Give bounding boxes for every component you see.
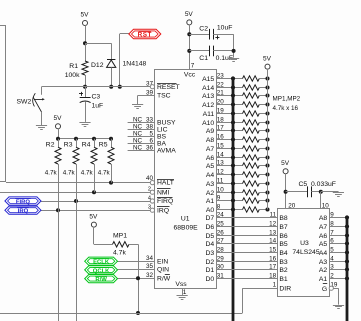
node junction (5V bus): [266, 86, 270, 90]
svg-text:D3: D3: [205, 250, 214, 257]
node junction (address bus): [231, 111, 235, 115]
node junction: [92, 137, 96, 141]
pin 17 A9: [206, 124, 243, 135]
svg-text:D0: D0: [205, 276, 214, 283]
svg-text:FIRQ: FIRQ: [157, 198, 173, 205]
node junction: [83, 85, 87, 89]
node junction (right bus): [345, 224, 349, 228]
capacitor C1 0.1uF: [189, 46, 233, 62]
pin 8 A0: [206, 203, 243, 214]
svg-text:RESET: RESET: [157, 84, 180, 91]
U3 pin 7 A6: [319, 229, 347, 240]
svg-text:5V: 5V: [185, 11, 194, 18]
svg-text:A11: A11: [203, 111, 215, 118]
switch SW2: [17, 87, 45, 126]
node junction (5V bus): [266, 164, 270, 168]
svg-text:QIN: QIN: [157, 267, 169, 274]
svg-text:MP1: MP1: [113, 232, 127, 239]
node junction: [92, 190, 96, 194]
U3 pin 2 A1: [319, 272, 347, 283]
svg-text:A3: A3: [319, 259, 328, 266]
pin 36 AVMA (NC): [128, 144, 177, 154]
wire: [85, 25, 87, 43]
resistor MP1/MP2 element A1: [243, 198, 268, 203]
ground: [177, 296, 188, 300]
node junction (address bus): [231, 93, 235, 97]
svg-text:U1: U1: [181, 215, 190, 222]
svg-text:A12: A12: [202, 102, 214, 109]
5V supply terminal (reset circuit): [81, 12, 90, 26]
pin 22 A14: [202, 81, 242, 92]
svg-text:74LS245: 74LS245: [292, 249, 319, 256]
svg-text:DIR: DIR: [279, 285, 291, 292]
svg-text:7: 7: [191, 63, 195, 70]
net flag R/W: [85, 275, 118, 284]
svg-text:LIC: LIC: [157, 127, 168, 134]
node junction (5V bus): [266, 156, 270, 160]
data bus right (thick): [346, 218, 349, 321]
svg-text:A3: A3: [206, 181, 215, 188]
svg-text:5V: 5V: [263, 55, 272, 62]
svg-text:ECLK: ECLK: [93, 260, 110, 266]
pin 39 TSC: [138, 90, 171, 100]
wire: [233, 34, 235, 57]
svg-text:B3: B3: [279, 259, 288, 266]
label 4.7k x 16: [273, 105, 299, 112]
resistor MP1/MP2 element A14: [243, 85, 268, 90]
resistor MP1/MP2 element A10: [243, 120, 268, 125]
svg-text:10uF: 10uF: [217, 25, 233, 32]
svg-text:U3: U3: [300, 240, 309, 247]
svg-text:17: 17: [269, 263, 277, 270]
svg-text:A5: A5: [206, 163, 215, 170]
svg-text:A6: A6: [206, 155, 215, 162]
svg-text:20: 20: [288, 202, 296, 209]
wire (IRQ net going down): [58, 210, 60, 321]
svg-text:D2: D2: [205, 259, 214, 266]
svg-text:NC: NC: [133, 123, 143, 130]
svg-text:D5: D5: [205, 233, 214, 240]
pin 20 label: [288, 202, 296, 209]
wire: [285, 173, 287, 208]
node junction (5V bus): [266, 208, 270, 212]
net flag IRQ: [5, 206, 41, 215]
net flag ECLK: [85, 257, 118, 266]
wire IRQ net: [41, 210, 150, 212]
resistor MP1/MP2 element A0: [243, 207, 268, 212]
pin 7 label: [191, 63, 195, 70]
svg-text:100k: 100k: [65, 72, 80, 79]
node junction: [232, 49, 236, 53]
node junction (address bus): [231, 128, 235, 132]
pin 12 A4: [206, 168, 243, 179]
5V supply terminal (U3): [281, 160, 290, 174]
svg-text:5: 5: [149, 130, 153, 137]
pin 11 A3: [206, 177, 243, 188]
pin 19 G: [322, 282, 339, 305]
svg-text:A1: A1: [206, 198, 215, 205]
resistor MP1/MP2 element A12: [243, 102, 268, 107]
node junction: [109, 181, 113, 185]
resistor MP1/MP2 element A2: [243, 190, 268, 195]
node junction (right bus): [345, 233, 349, 237]
node junction: [187, 49, 191, 53]
svg-text:B2: B2: [279, 267, 288, 274]
svg-text:NC: NC: [133, 137, 143, 144]
node junction: [319, 190, 323, 194]
svg-text:A1: A1: [319, 276, 328, 283]
svg-text:4.7k: 4.7k: [81, 169, 94, 176]
pin 13 A5: [206, 159, 243, 170]
pin 27 D4 to U3 pin 14 B5: [205, 237, 287, 248]
svg-text:A15: A15: [202, 76, 214, 83]
node junction (5V bus): [266, 129, 270, 133]
node junction: [284, 190, 288, 194]
svg-text:D12: D12: [91, 62, 104, 69]
svg-text:HALT: HALT: [157, 180, 174, 187]
node junction (address bus): [231, 102, 235, 106]
svg-text:NC: NC: [133, 130, 143, 137]
node junction (5V bus): [266, 191, 270, 195]
node junction (5V bus): [266, 77, 270, 81]
svg-text:NC: NC: [133, 144, 143, 151]
svg-text:D4: D4: [205, 241, 214, 248]
node junction (address bus): [231, 163, 235, 167]
svg-text:A4: A4: [206, 172, 215, 179]
svg-text:C2: C2: [199, 25, 208, 32]
wire NMI net: [0, 192, 150, 194]
node junction (5V bus): [266, 121, 270, 125]
resistor MP1/MP2 element A4: [243, 172, 268, 177]
resistor MP1 4.7k: [94, 227, 139, 257]
svg-text:6: 6: [149, 137, 153, 144]
resistor R3 4.7k: [63, 139, 79, 201]
U3 pin 8 A7: [319, 220, 347, 231]
svg-text:EIN: EIN: [157, 258, 168, 265]
node junction (address bus): [231, 146, 235, 150]
svg-text:R1: R1: [69, 63, 78, 70]
resistor MP1/MP2 element A15: [243, 76, 268, 81]
resistor MP1/MP2 element A7: [243, 146, 268, 151]
pin 6 BA (NC): [128, 137, 167, 147]
svg-text:B6: B6: [279, 233, 288, 240]
svg-text:4.7k: 4.7k: [63, 169, 76, 176]
svg-text:A2: A2: [319, 267, 328, 274]
pin 28 D3 to U3 pin 15 B4: [205, 246, 287, 257]
pin 31 D0 to U3 pin 18 B1: [205, 272, 287, 283]
node junction (address bus): [231, 85, 235, 89]
wire HALT net: [6, 182, 150, 184]
node junction (5V bus): [266, 94, 270, 98]
node junction: [109, 85, 113, 89]
svg-text:18: 18: [269, 272, 277, 279]
svg-text:A4: A4: [319, 250, 328, 257]
U3 pin 6 A5: [319, 237, 347, 248]
svg-text:A8: A8: [319, 215, 328, 222]
pin 10 A2: [206, 186, 243, 197]
svg-text:14: 14: [269, 237, 277, 244]
resistor MP1/MP2 element A5: [243, 163, 268, 168]
5V supply terminal (pullups): [54, 115, 63, 129]
pin 25 D6 to U3 pin 12 B7: [205, 220, 287, 231]
wire: [137, 96, 139, 105]
svg-text:G: G: [322, 286, 327, 293]
ground: [333, 193, 344, 197]
resistor R2 4.7k: [45, 139, 61, 210]
svg-text:RST: RST: [138, 31, 152, 38]
svg-text:1N4148: 1N4148: [123, 61, 147, 68]
node junction: [136, 311, 140, 315]
svg-text:NMI: NMI: [157, 189, 170, 196]
pin 29 D2 to U3 pin 16 B3: [205, 255, 287, 266]
capacitor C3 1uF: [79, 87, 103, 122]
node junction (address bus): [231, 137, 235, 141]
svg-text:TSC: TSC: [157, 93, 171, 100]
ground: [228, 59, 239, 62]
svg-text:A14: A14: [202, 85, 214, 92]
svg-text:B8: B8: [279, 215, 288, 222]
pin 35 QIN: [118, 263, 170, 273]
pin 14 A6: [206, 151, 243, 162]
svg-text:A7: A7: [206, 146, 215, 153]
pin 20 A12: [202, 98, 242, 109]
svg-text:5V: 5V: [281, 160, 290, 167]
svg-text:5V: 5V: [89, 213, 98, 220]
node junction (5V bus): [266, 103, 270, 107]
node junction: [74, 199, 78, 203]
ground: [79, 123, 90, 127]
pin 2 NMI: [148, 187, 171, 197]
wire: [58, 129, 111, 139]
svg-text:32: 32: [146, 272, 154, 279]
node junction (right bus): [345, 215, 349, 219]
node junction: [56, 208, 60, 212]
pin 38 LIC (NC): [128, 123, 168, 133]
svg-text:AVMA: AVMA: [157, 148, 176, 155]
svg-text:A8: A8: [206, 137, 215, 144]
svg-text:D1: D1: [205, 267, 214, 274]
wire: [85, 43, 111, 45]
svg-text:BA: BA: [157, 141, 167, 148]
svg-text:BS: BS: [157, 134, 167, 141]
pin 1 DIR: [273, 282, 292, 293]
pin 16 A8: [206, 133, 243, 144]
node junction (right bus): [345, 267, 349, 271]
wire (FIRQ net going down): [76, 201, 78, 321]
U3 pin 3 A2: [319, 263, 347, 274]
resistor R4 4.7k: [81, 139, 97, 192]
wire: [138, 244, 140, 313]
pin 21 A13: [202, 89, 242, 100]
pin 30 D1 to U3 pin 17 B2: [205, 263, 287, 274]
pin 24 D7 to U3 pin 11 B8: [205, 211, 287, 222]
svg-text:MP1,MP2: MP1,MP2: [273, 95, 301, 102]
svg-text:10: 10: [322, 202, 330, 209]
pin 4 FIRQ: [148, 195, 173, 205]
wire: [120, 34, 129, 87]
node junction (5V bus): [266, 147, 270, 151]
pin 18 A10: [202, 116, 242, 127]
svg-text:IRQ: IRQ: [157, 207, 169, 214]
wire (R/W to DIR): [0, 288, 278, 313]
svg-text:1: 1: [183, 289, 187, 296]
wire: [321, 192, 339, 193]
svg-text:NC: NC: [133, 116, 143, 123]
pin 1 Vss: [183, 288, 187, 296]
node junction: [187, 32, 191, 36]
svg-text:A13: A13: [202, 93, 214, 100]
diode D12 1N4148: [91, 43, 147, 86]
node junction (5V bus): [266, 173, 270, 177]
5V supply terminal (Vcc): [185, 11, 194, 25]
resistor MP1/MP2 element A3: [243, 181, 268, 186]
svg-text:A9: A9: [206, 128, 215, 135]
svg-text:11: 11: [270, 211, 277, 218]
svg-text:R5: R5: [99, 142, 108, 149]
pin 19 A11: [203, 107, 243, 118]
node junction (5V bus): [266, 199, 270, 203]
capacitor C5 0.033uF: [286, 181, 336, 197]
pin 15 A7: [206, 142, 243, 153]
wire (5V bus): [267, 69, 269, 210]
svg-text:15: 15: [269, 246, 277, 253]
partial IC box at left edge: [0, 26, 6, 182]
node junction (right bus): [345, 276, 349, 280]
node junction (address bus): [231, 172, 235, 176]
svg-text:A0: A0: [206, 207, 215, 214]
svg-text:A2: A2: [206, 190, 215, 197]
svg-text:4.7k: 4.7k: [113, 250, 126, 257]
label MP1,MP2: [273, 95, 301, 102]
svg-text:Vcc: Vcc: [184, 71, 196, 78]
node junction (right bus): [345, 250, 349, 254]
svg-text:SW2: SW2: [17, 98, 32, 105]
svg-text:R3: R3: [64, 142, 73, 149]
svg-text:C5: C5: [299, 181, 308, 188]
IC U1 68B09E box: [155, 70, 217, 289]
pin 26 D5 to U3 pin 13 B6: [205, 229, 287, 240]
node junction (address bus): [231, 190, 235, 194]
svg-text:R4: R4: [82, 142, 91, 149]
svg-text:34: 34: [146, 255, 154, 262]
node junction (address bus): [231, 207, 235, 211]
pin 5 BS (NC): [128, 130, 167, 140]
resistor MP1/MP2 element A6: [243, 155, 268, 160]
svg-text:R/W: R/W: [95, 277, 107, 283]
node junction: [74, 137, 78, 141]
svg-text:12: 12: [269, 220, 277, 227]
node junction (address bus): [231, 155, 235, 159]
pin 37 RESET: [146, 80, 180, 90]
node junction (5V bus): [266, 112, 270, 116]
node junction (address bus): [231, 198, 235, 202]
pin 23 A15: [202, 72, 242, 83]
resistor MP1/MP2 element A9: [243, 128, 268, 133]
pin 40 HALT: [146, 175, 174, 187]
net flag FIRQ: [5, 197, 41, 206]
svg-text:A5: A5: [319, 241, 328, 248]
svg-text:38: 38: [146, 123, 154, 130]
U3 pin 9 A8: [319, 211, 347, 222]
net flag RST: [129, 29, 161, 38]
node junction (right bus): [345, 241, 349, 245]
svg-text:4.7k: 4.7k: [45, 169, 58, 176]
node junction (address bus): [231, 76, 235, 80]
svg-text:B7: B7: [279, 224, 288, 231]
svg-text:FIRQ: FIRQ: [16, 199, 30, 205]
node junction (5V bus): [266, 138, 270, 142]
svg-text:A6: A6: [319, 233, 328, 240]
node junction (5V bus): [266, 182, 270, 186]
resistor R1: [65, 43, 88, 86]
svg-text:Vss: Vss: [175, 281, 187, 288]
node junction (right bus): [345, 259, 349, 263]
address bus (thick): [232, 78, 235, 321]
svg-text:5V: 5V: [54, 115, 63, 122]
U3 pin 4 A3: [319, 255, 347, 266]
resistor MP1/MP2 element A13: [243, 93, 268, 98]
pin 32 R/W: [118, 272, 171, 283]
node junction: [136, 276, 140, 280]
svg-text:5V: 5V: [81, 12, 90, 19]
resistor MP1/MP2 element A8: [243, 137, 268, 142]
svg-text:B5: B5: [279, 241, 288, 248]
svg-text:D6: D6: [205, 224, 214, 231]
node junction: [109, 137, 113, 141]
svg-text:QCLK: QCLK: [93, 268, 110, 274]
node junction (address bus): [231, 181, 235, 185]
svg-text:4.7k: 4.7k: [98, 169, 111, 176]
node junction (address bus): [231, 120, 235, 124]
node junction: [56, 137, 60, 141]
node junction: [118, 85, 122, 89]
resistor MP1/MP2 element A11: [243, 111, 268, 116]
svg-text:68B09E: 68B09E: [174, 225, 199, 232]
svg-text:B4: B4: [279, 250, 288, 257]
5V supply terminal (MP1): [89, 213, 98, 227]
svg-text:13: 13: [269, 229, 277, 236]
pin 33 BUSY (NC): [128, 116, 176, 126]
svg-text:33: 33: [146, 116, 154, 123]
ground: [132, 105, 143, 109]
ground: [36, 126, 47, 130]
svg-text:0.033uF: 0.033uF: [311, 181, 336, 188]
svg-text:C3: C3: [92, 94, 101, 101]
svg-text:D7: D7: [205, 215, 214, 222]
svg-text:R2: R2: [46, 142, 55, 149]
capacitor C2 10uF: [189, 25, 233, 40]
svg-text:A10: A10: [202, 120, 214, 127]
resistor R5 4.7k: [98, 139, 114, 183]
U3 pin 5 A4: [319, 246, 347, 257]
svg-text:C1: C1: [199, 55, 208, 62]
wire FIRQ net: [41, 201, 150, 203]
svg-text:1: 1: [273, 282, 277, 289]
svg-text:B1: B1: [279, 276, 288, 283]
svg-text:R/W: R/W: [157, 276, 171, 283]
5V supply terminal (resistor packs): [263, 55, 272, 69]
svg-text:4.7k x 16: 4.7k x 16: [273, 105, 299, 112]
svg-text:BUSY: BUSY: [157, 120, 176, 127]
node junction: [83, 41, 87, 45]
svg-text:36: 36: [146, 144, 154, 151]
net flag QCLK: [85, 266, 118, 275]
ground: [333, 306, 344, 309]
pin 9 A1: [206, 194, 243, 205]
pin 34 EIN: [118, 255, 169, 265]
svg-text:1uF: 1uF: [92, 102, 104, 109]
wire: [42, 86, 151, 88]
